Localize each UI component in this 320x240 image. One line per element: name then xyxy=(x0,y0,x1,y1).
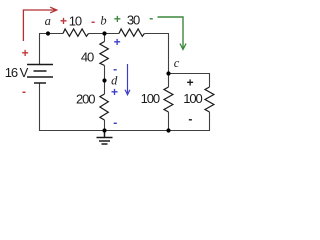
battery 16 V xyxy=(27,65,53,84)
wire node c to right branch top xyxy=(169,74,210,88)
resistor 100 right (far right branch) xyxy=(205,87,214,112)
svg-text:b: b xyxy=(100,14,106,28)
svg-text:100: 100 xyxy=(141,91,160,106)
wire right branch down and bottom wire back to battery xyxy=(40,83,210,131)
resistor 10 (between a and b) xyxy=(63,29,89,36)
node d junction dot xyxy=(102,78,106,82)
wire node b down to resistor 40 xyxy=(104,34,106,42)
svg-text:16 V: 16 V xyxy=(5,65,29,80)
junction dot bottom right xyxy=(166,128,170,132)
wire resistor 100 left to bottom wire xyxy=(168,112,170,131)
svg-text:-: - xyxy=(188,112,192,126)
svg-text:200: 200 xyxy=(76,91,95,106)
svg-text:+: + xyxy=(60,14,67,28)
node a junction dot xyxy=(46,31,50,35)
svg-text:-: - xyxy=(22,85,26,99)
svg-text:100: 100 xyxy=(183,91,202,106)
svg-text:+: + xyxy=(111,85,118,99)
green current arrow to node c xyxy=(158,17,184,48)
node c junction dot xyxy=(166,71,170,75)
wire resistor 40 to node d and resistor 200 xyxy=(104,66,106,95)
ground xyxy=(97,131,113,145)
svg-text:c: c xyxy=(174,56,180,70)
resistor 30 (between b and top-right corner) xyxy=(119,29,144,36)
svg-text:30: 30 xyxy=(127,12,140,27)
wire top-right corner down to node c xyxy=(144,34,168,74)
blue current arrow at node d xyxy=(127,64,129,93)
svg-text:+: + xyxy=(114,12,121,26)
resistor 200 (below d) xyxy=(100,94,108,120)
svg-text:-: - xyxy=(149,11,153,25)
wire top-left: battery top to node a xyxy=(40,34,64,65)
node b junction dot xyxy=(102,31,106,35)
wire b segment xyxy=(89,33,120,35)
wire node c down to resistor 100 left xyxy=(168,74,170,88)
svg-text:10: 10 xyxy=(69,13,82,28)
svg-text:+: + xyxy=(187,75,194,89)
red current arrow at source xyxy=(23,10,55,41)
svg-text:40: 40 xyxy=(81,49,94,64)
svg-text:-: - xyxy=(91,15,95,29)
wire resistor 200 to bottom wire xyxy=(104,120,106,131)
svg-text:a: a xyxy=(45,14,51,28)
svg-text:+: + xyxy=(114,35,121,49)
resistor 100 left (below c) xyxy=(164,87,173,112)
resistor 40 (between b and d) xyxy=(100,42,108,66)
svg-text:-: - xyxy=(113,116,117,130)
junction dot bottom middle xyxy=(102,128,106,132)
svg-text:+: + xyxy=(22,46,29,60)
